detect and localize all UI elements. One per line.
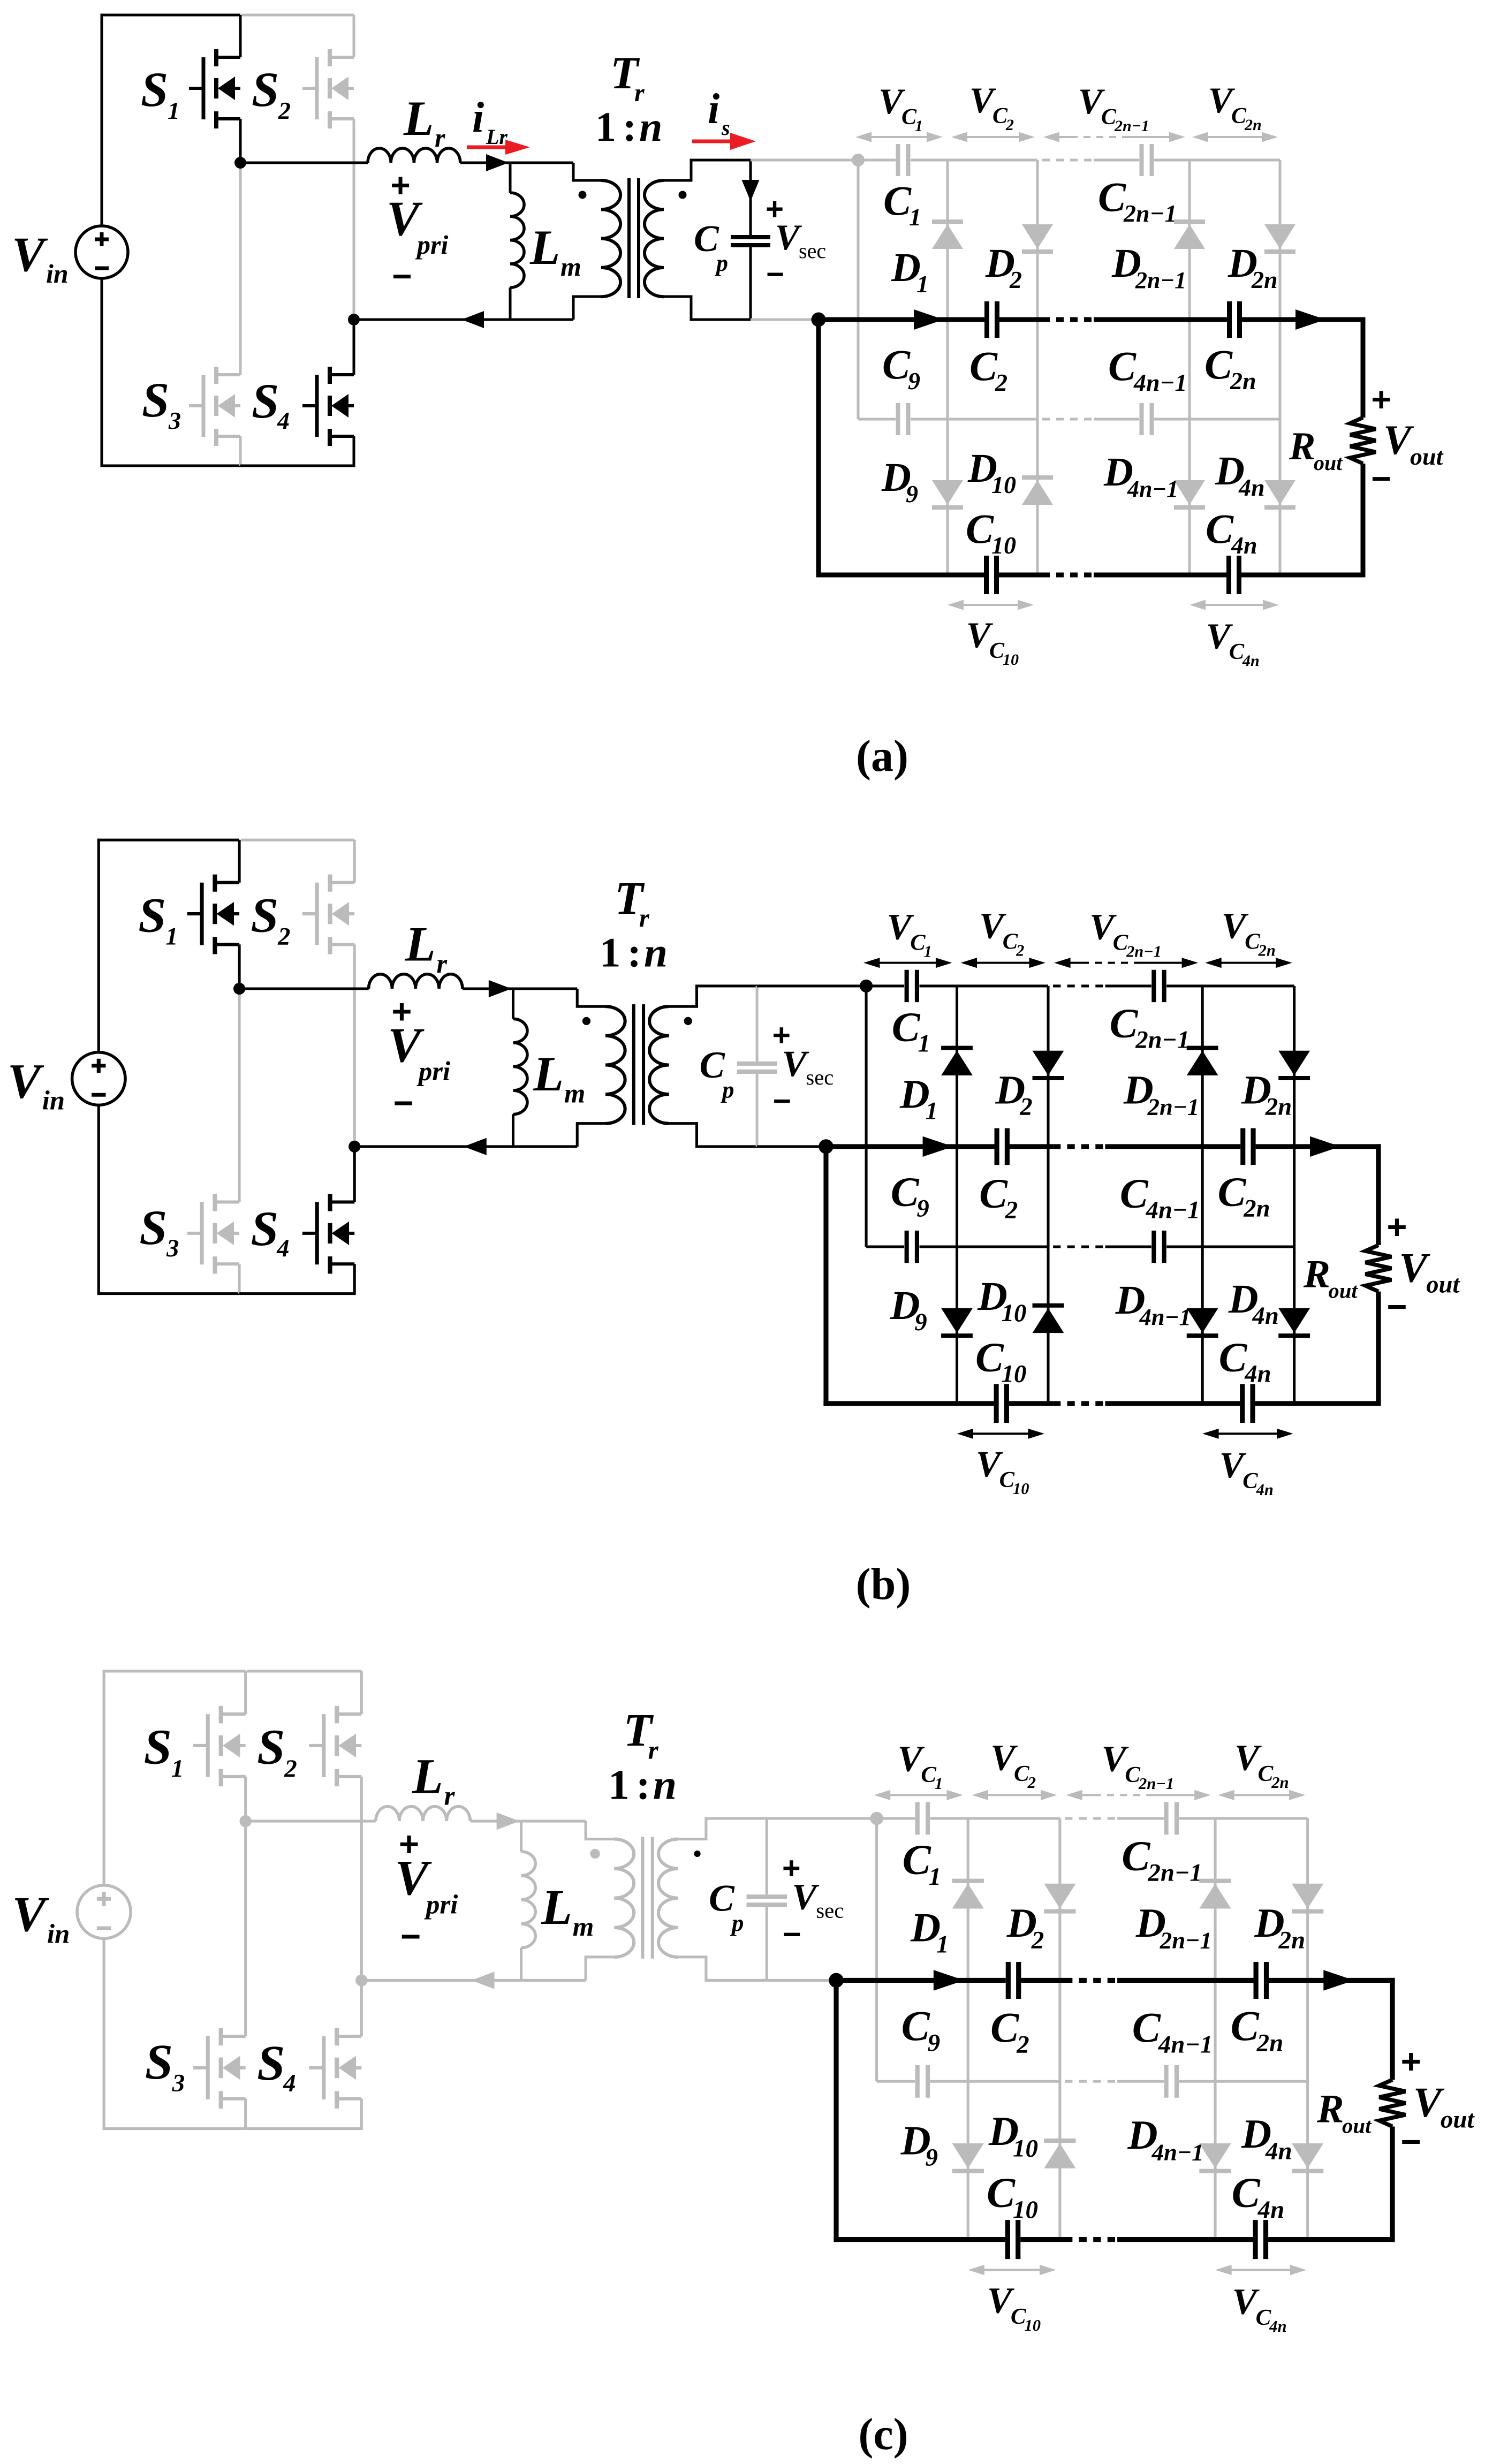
wire Vin to bottom rail [101,278,241,467]
C9 rail with capacitor C4n-1 [1094,403,1280,435]
label D10 [977,1273,1026,1327]
node bridge midpoint left [239,1815,251,1827]
diode D1 [941,1048,973,1075]
transistor S2 [247,1671,361,1981]
current arrow iLr [467,140,530,155]
svg-text:C: C [1110,1000,1139,1047]
wire return (primary bottom) [354,311,573,328]
svg-text:4n: 4n [1231,532,1257,559]
primary phase dot [579,191,587,199]
label Vsec [792,1876,844,1923]
label C2n-1 [1098,173,1177,227]
svg-text:1: 1 [171,1755,184,1783]
diode D1 [932,222,963,249]
svg-text:9: 9 [906,480,918,507]
measure arrow VC2 [951,132,1035,142]
measure arrow VC2n-1 [1054,958,1198,968]
svg-text:C: C [1232,2170,1261,2217]
wire junction to Lr [239,987,368,990]
svg-text:1: 1 [935,1775,943,1793]
svg-text:−: − [393,1083,414,1123]
label C9 [882,341,920,395]
svg-text:2n−1: 2n−1 [1114,117,1149,135]
transformer Tr primary winding [521,1821,634,1980]
svg-text:+: + [1371,380,1391,419]
primary phase dot [582,1017,590,1025]
svg-text:10: 10 [991,532,1016,559]
label C10 [987,2170,1038,2224]
svg-text:m: m [560,252,581,282]
svg-text:S: S [142,373,169,427]
label VC1 [887,907,932,961]
label C4n-1 [1108,343,1187,396]
label VC1 [897,1738,943,1793]
diode D10 [1033,1306,1064,1333]
wire diode branch D2n-1 vertical [1188,160,1191,575]
label C4n [1232,2170,1285,2224]
transformer core [629,178,639,298]
svg-text:4n−1: 4n−1 [1151,2139,1203,2166]
svg-text:4n: 4n [1238,474,1265,501]
label D4n [1228,1276,1279,1330]
svg-text:4n−1: 4n−1 [1127,476,1178,502]
svg-text:R: R [1289,424,1315,468]
svg-text:4n: 4n [1252,1302,1279,1330]
svg-text:pri: pri [416,1056,450,1086]
svg-text:2n−1: 2n−1 [1147,1859,1202,1887]
wire Vin to bottom rail [103,1938,246,2130]
svg-text:1: 1 [168,97,180,124]
svg-text:V: V [1399,1245,1430,1292]
transistor S1 [193,1671,246,1821]
measure arrow VC4n [1215,2265,1307,2275]
label S2 [252,62,291,124]
label VC10 [976,1444,1029,1498]
svg-text:C: C [892,1004,921,1051]
svg-text:1: 1 [600,930,621,976]
transistor S3 [193,1821,246,2128]
node mid rail [812,313,826,327]
label Cp [709,1877,744,1936]
svg-text:2n: 2n [1271,1773,1289,1792]
label Tr [610,47,645,107]
wire secondary top to rail start [751,159,858,162]
measure arrow VC2 [972,1790,1057,1800]
svg-text:C: C [1231,2003,1260,2050]
resistor Rout [1366,1144,1392,1406]
bottom rail with capacitors C10 and C4n [816,556,1366,594]
label Vout [1399,1245,1460,1299]
label Vsec minus [783,1917,801,1952]
label Rout [1303,1252,1359,1303]
svg-text:r: r [639,904,650,932]
svg-text:1: 1 [929,1863,941,1891]
label D4n [1241,2111,1292,2165]
svg-text:S: S [251,1201,278,1256]
svg-text:2n−1: 2n−1 [1147,1094,1200,1120]
svg-text:L: L [529,220,560,275]
label S1 [144,1720,184,1783]
wire Vin to bottom rail [97,1105,239,1295]
label C9 [891,1169,929,1223]
svg-text:C: C [1206,505,1234,552]
measure arrow VC10 [957,1429,1044,1439]
label D10 [988,2108,1038,2162]
measure arrow VC2n [1192,132,1278,142]
svg-text:V: V [12,1887,49,1942]
svg-text:m: m [573,1912,594,1942]
transformer Tr secondary winding [658,1818,767,1980]
inductor Lr [368,148,460,163]
label D2n [1241,1067,1292,1121]
svg-text:m: m [564,1079,585,1109]
diode D9 [952,2143,984,2171]
svg-text:pri: pri [415,230,448,260]
svg-text:C: C [979,1171,1008,1217]
measure arrow VC4n [1189,600,1279,610]
svg-text::: : [623,103,637,150]
caption (c) [858,2409,908,2459]
wire mid node down to bottom rail [816,320,821,578]
node top rail start [860,980,873,992]
svg-text:C: C [990,2004,1019,2051]
label Vsec minus [766,257,784,292]
svg-text:2: 2 [1016,942,1024,960]
label Vpri plus [390,166,410,204]
label D1 [899,1072,938,1125]
svg-text:2: 2 [278,97,291,124]
wire return (primary bottom) [361,1972,586,1989]
svg-text:C: C [891,1169,920,1216]
svg-text:10: 10 [1024,2316,1041,2334]
inductor Lm [510,163,524,320]
svg-text:p: p [720,1076,734,1103]
label C1 [883,177,921,231]
diode D4n-1 [1199,2143,1231,2171]
label 1:n [595,103,662,150]
label Vsec [775,217,826,263]
label D4n-1 [1127,2112,1204,2165]
wire secondary top to rail start [767,1817,876,1819]
svg-text:2n: 2n [1243,1195,1270,1223]
label VC2n-1 [1078,81,1149,135]
label Vout minus [1386,1287,1407,1326]
svg-text:V: V [792,1876,819,1917]
label VC1 [878,81,923,135]
svg-text:−: − [773,1084,791,1119]
label VC2n [1222,906,1276,960]
measure arrow VC2 [961,958,1045,968]
wire Lr to node [471,1813,521,1830]
wire Lr to node [460,154,510,171]
svg-text:pri: pri [424,1890,458,1920]
diode D10 [1044,2141,1075,2169]
wire Cp to mid-rail node [751,319,819,321]
secondary phase dot [684,1017,692,1025]
diode D4n-1 [1187,1308,1218,1336]
svg-text:4n: 4n [1242,652,1260,670]
label Lm [541,1880,594,1942]
svg-text:R: R [1316,2087,1344,2132]
node mid rail [819,1139,833,1154]
wire top-dot to C9 rail [865,986,868,1247]
svg-text:2: 2 [1031,1927,1044,1954]
svg-text:2: 2 [1005,1197,1018,1224]
svg-text:C: C [966,505,994,552]
wire junction to Lr [240,162,368,164]
svg-text:4n−1: 4n−1 [1133,369,1187,396]
mid rail with capacitors C2 and C2n [836,1962,1395,1999]
svg-text:4n: 4n [1244,1361,1271,1388]
wire diode branch D2n vertical [1279,160,1282,575]
label Lm [533,1047,585,1109]
label Vin [12,227,69,289]
label S4 [252,374,290,434]
wire diode branch D1 vertical [946,160,949,575]
svg-text:C: C [1204,341,1233,388]
wire mid node down to bottom rail [834,1980,839,2242]
svg-text:1: 1 [915,117,923,135]
svg-text:9: 9 [916,1195,929,1223]
mid rail with capacitors C2 and C2n [819,301,1366,338]
label D2 [995,1067,1033,1121]
label Vsec [782,1043,834,1089]
svg-text:C: C [1122,1833,1150,1880]
label C2n (mid rail) [1231,2003,1284,2057]
C9 rail with capacitor C4n-1 [1105,1231,1294,1263]
svg-text:2: 2 [1027,1773,1036,1792]
label Lm [529,220,581,282]
svg-text:r: r [435,123,445,153]
top rail with capacitor C2n-1 [1094,144,1280,176]
top rail dashed section [1053,984,1105,987]
label VC2 [969,80,1014,134]
svg-text::: : [636,1762,650,1809]
label S1 [138,888,178,951]
svg-text:2n: 2n [1244,116,1262,134]
label Vout plus [1371,380,1391,419]
label C1 [892,1004,930,1058]
diode D2n [1278,1051,1310,1078]
svg-text:2: 2 [284,1755,297,1783]
svg-text:V: V [782,1043,809,1084]
label C2 [969,343,1007,396]
top rail dashed section [1065,1817,1117,1819]
svg-text:S: S [141,62,168,117]
svg-text:sec: sec [806,1065,834,1089]
diode D9 [932,480,963,507]
svg-text:2n: 2n [1251,266,1278,293]
svg-text:L: L [541,1880,572,1935]
label VC4n [1219,1445,1274,1499]
svg-text:n: n [639,103,662,150]
measure arrow VC2n [1218,1790,1305,1800]
svg-text:S: S [257,1720,285,1775]
wire diode branch D2n-1 vertical [1214,1818,1216,2240]
svg-text:C: C [969,343,998,389]
label S2 [257,1720,297,1783]
wire junction to Lr [246,1820,376,1823]
label Rout [1316,2087,1372,2138]
label Vout [1383,416,1444,470]
svg-text:10: 10 [1003,651,1019,669]
svg-text:S: S [251,888,278,943]
svg-text:−: − [1401,2122,1421,2161]
node bridge midpoint right [348,314,360,325]
label D9 [881,455,918,507]
label VC4n [1206,616,1260,670]
svg-text:−: − [1371,459,1391,498]
svg-text:2n: 2n [1278,1927,1305,1954]
svg-text:1: 1 [909,203,921,231]
svg-text:i: i [472,94,484,141]
svg-text:4n: 4n [1269,2317,1286,2336]
label Rout [1289,424,1343,475]
label Vsec minus [773,1084,791,1119]
label C9 [901,2003,941,2057]
label Vpri minus [400,1917,421,1956]
mid rail with capacitors C2 and C2n [826,1128,1381,1165]
measure arrow VC4n [1202,1429,1293,1439]
transformer Tr secondary winding [649,986,757,1147]
diode D10 [1022,477,1053,505]
label Lr [403,91,445,153]
svg-text:sec: sec [799,239,826,263]
transistor S2 [241,840,355,1147]
label VC2 [990,1737,1036,1792]
label D1 [891,245,929,298]
transistor S1 [189,15,240,163]
wire diode branch D2n vertical [1306,1818,1309,2240]
svg-text:10: 10 [1013,1480,1029,1498]
label VC2n-1 [1102,1738,1175,1793]
svg-text:out: out [1441,2106,1475,2134]
label VC10 [987,2280,1041,2334]
primary phase dot [590,1849,600,1859]
svg-text:2: 2 [1016,2031,1029,2059]
measure arrow VC10 [948,600,1034,610]
wire mid node down to bottom rail [823,1147,828,1406]
svg-text:C: C [1108,343,1137,389]
inductor Lm [521,1821,536,1980]
svg-text:C: C [694,218,719,260]
svg-text:C: C [1219,1335,1248,1381]
diode D2 [1033,1051,1064,1078]
C9 rail dashed section [1042,418,1094,421]
label C2n-1 [1110,1000,1190,1054]
svg-text:2: 2 [1005,116,1014,134]
wire secondary top to rail start [757,984,866,987]
label VC10 [966,615,1019,669]
svg-text:4n−1: 4n−1 [1158,2031,1213,2059]
label Vout plus [1386,1207,1407,1246]
caption (b) [856,1559,911,1609]
wire diode branch D1 vertical [956,986,958,1404]
svg-text:2n−1: 2n−1 [1126,943,1162,961]
capacitor Cp [731,160,770,320]
diode D2n-1 [1187,1048,1218,1075]
label VC4n [1232,2281,1287,2336]
svg-text:C: C [1120,1171,1149,1217]
label Lr [405,917,448,979]
label C4n-1 [1120,1171,1200,1224]
svg-text:Lr: Lr [486,125,507,149]
label D4n-1 [1103,450,1178,502]
svg-text:2n−1: 2n−1 [1160,1927,1212,1954]
label S1 [141,62,180,124]
label Vout [1413,2079,1475,2133]
label 1:n [600,930,668,976]
measure arrow VC10 [968,2265,1056,2275]
svg-text:C: C [1218,1169,1247,1216]
circuit diagram (c) [12,1670,1475,2336]
wire diode branch D2n vertical [1293,986,1295,1404]
svg-text:n: n [644,930,668,976]
svg-text:p: p [730,1909,744,1936]
svg-text:4: 4 [276,1235,289,1262]
measure arrow VC1 [863,958,952,968]
svg-text:3: 3 [166,1235,179,1262]
C9 rail dashed section [1053,1246,1105,1248]
transistor S3 [189,163,240,466]
svg-text:out: out [1329,1279,1359,1303]
C9 rail with capacitor C4n-1 [1117,2065,1308,2098]
voltage source Vin [75,226,128,278]
svg-text:1: 1 [595,103,616,150]
measure arrow VC2n-1 [1043,132,1185,142]
label C4n [1219,1335,1271,1388]
transistor S4 [240,320,354,467]
wire Cp to mid-rail node [767,1979,836,1982]
wire top-dot to C9 rail [857,160,860,419]
svg-text:4n−1: 4n−1 [1146,1197,1200,1224]
caption (a) [856,731,908,781]
svg-text:4: 4 [283,2069,296,2097]
svg-text:4n: 4n [1265,2137,1292,2165]
svg-text:S: S [252,62,279,117]
svg-text:2n: 2n [1265,1094,1292,1121]
node bridge midpoint left [234,157,246,169]
svg-text:C: C [882,341,911,388]
svg-text:S: S [139,1200,167,1255]
label Lr [412,1749,455,1811]
svg-text:C: C [700,1044,725,1086]
svg-text:3: 3 [172,2069,185,2097]
diode D4n-1 [1174,480,1205,507]
bottom rail with capacitors C10 and C4n [834,2220,1395,2259]
wire Lr to node [463,980,513,997]
svg-text:−: − [766,257,784,292]
svg-text:in: in [47,1920,70,1950]
C9 rail with capacitor C9 [866,1231,1048,1263]
svg-text:2n: 2n [1258,942,1276,960]
svg-text:4n: 4n [1256,1481,1274,1499]
wire Vin to top rail [103,1670,246,1885]
label D2n-1 [1123,1067,1199,1120]
svg-text:C: C [883,177,912,224]
svg-text:S: S [257,2036,285,2091]
svg-text:r: r [436,949,448,979]
transistor S2 [242,15,354,320]
label Vin [12,1887,70,1949]
label 1:n [608,1762,677,1809]
node top rail start [870,1812,883,1825]
svg-text:(a): (a) [856,731,908,781]
svg-text:2n: 2n [1256,2029,1284,2057]
svg-text:out: out [1342,2114,1372,2138]
svg-text:L: L [412,1749,443,1805]
measure arrow VC1 [874,1790,964,1800]
